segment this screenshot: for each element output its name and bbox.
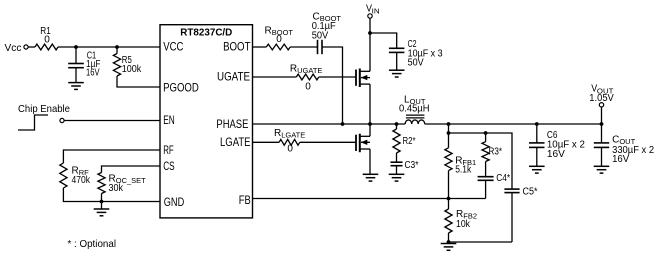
pin BOOT [223,39,251,53]
svg-text:R2*: R2* [403,136,416,147]
node Vcc input terminal [5,42,29,54]
junction node VOUT-RFB1 [447,122,451,126]
wire RLGATE to Q2 gate [300,141,356,143]
pin PGOOD [163,81,199,95]
wire RUGATE to Q1 gate [319,76,356,78]
svg-text:VCC: VCC [163,40,183,54]
ground RF/CS rail [94,202,110,216]
svg-text:FB: FB [239,193,251,207]
capacitor C3* [391,153,419,174]
svg-text:0: 0 [305,82,311,93]
wire phase node segment [343,123,406,125]
svg-text:0.45µH: 0.45µH [399,104,430,115]
capacitor C6 [529,124,585,166]
svg-text:RUGATE: RUGATE [290,64,323,76]
transistor Q1 high-side NMOS [356,69,370,88]
resistor RLGATE [274,128,305,154]
wire feedback sub-rail [449,133,513,189]
svg-text:UGATE: UGATE [217,70,250,84]
pin FB [239,193,251,207]
inductor LOUT [399,94,430,124]
capacitor C2 [389,39,443,70]
capacitor C1 [68,47,100,83]
node VIN input [366,4,380,19]
wire RBOOT to CBOOT [290,46,317,48]
svg-text:EN: EN [163,113,175,127]
resistor RBOOT [265,26,294,50]
svg-text:10k: 10k [456,219,471,230]
svg-text:GND: GND [164,195,185,209]
resistor R2* [393,124,416,153]
svg-text:30k: 30k [109,183,124,194]
wire Vcc terminal to R1 [28,46,35,48]
wire C2 branch [370,33,397,48]
pin RF [163,143,174,157]
pin CS [163,159,175,173]
wire ROC_SET bottom [101,194,103,202]
wire R5 to PGOOD pin [117,76,160,87]
ground C2 [389,70,405,77]
resistor RFB2 [445,199,477,243]
resistor R3* [482,133,502,162]
ground C6 [529,166,545,173]
svg-text:50V: 50V [408,58,424,69]
svg-text:* : Optional: * : Optional [68,238,117,250]
junction node VOUT-C6 [535,122,539,126]
ground C3* [389,174,405,181]
wire VIN down [369,18,371,33]
pin UGATE [217,70,250,84]
op-amp U1 RT8237C/D controller box [160,25,253,218]
resistor RRF [60,163,91,188]
svg-text:50V: 50V [312,30,329,41]
svg-text:16V: 16V [612,154,629,165]
junction node C1 tap [74,45,78,49]
junction node phase-CBOOT [341,122,345,126]
resistor R5 [113,47,142,76]
svg-text:RLGATE: RLGATE [274,128,305,140]
node VOUT output terminal [589,83,614,107]
node Chip Enable input [18,103,70,130]
svg-text:0: 0 [44,35,50,46]
wire inductor to output node [425,123,602,125]
junction node ground rail [100,200,104,204]
ground COUT [594,166,610,173]
svg-text:Chip Enable: Chip Enable [18,103,70,115]
capacitor C4* [478,162,511,199]
svg-text:5.1k: 5.1k [455,165,472,176]
ground C1 [68,83,84,90]
capacitor CBOOT [312,12,342,55]
wire VIN junction to Q1 drain [369,33,371,71]
svg-text:16V: 16V [547,149,565,160]
junction node R5 tap [115,45,119,49]
svg-text:CS: CS [163,159,175,173]
junction node phase-Q1 [368,122,372,126]
svg-text:0: 0 [287,143,293,154]
svg-text:IN: IN [372,7,380,16]
wire EN [64,120,160,122]
ground RFB2 [441,242,457,250]
wire Q2 drain to phase [369,124,371,136]
junction node VOUT terminal tap [600,122,604,126]
svg-text:LGATE: LGATE [220,135,251,149]
svg-text:0: 0 [276,34,282,45]
wire R1 to VCC pin [58,46,160,48]
wire RFB1 branch top [448,124,450,148]
resistor RFB1 [445,148,476,199]
pin VCC [163,40,183,54]
wire RF pin to RRF [63,150,160,163]
junction node RFB2 ground [447,240,451,244]
svg-text:RF: RF [163,143,174,157]
svg-text:100k: 100k [122,64,142,75]
wire UGATE pin to RUGATE [253,76,297,78]
svg-text:C4*: C4* [496,173,510,184]
junction node sub-rail at RFB1 [447,131,451,135]
pin EN [163,113,175,127]
wire PHASE pin to phase node [253,123,343,125]
junction node phase-R2 snubber [395,122,399,126]
text optional note [68,238,117,250]
resistor R1 [35,26,58,50]
resistor RUGATE [290,64,323,93]
pin GND [164,195,185,209]
svg-text:R3*: R3* [489,147,503,158]
svg-text:C3*: C3* [405,160,419,171]
wire RRF bottom to ground rail [63,188,160,202]
wire LGATE pin to RLGATE [253,141,280,143]
ground Q2 source [363,174,379,181]
svg-text:PGOOD: PGOOD [163,81,199,95]
wire FB pin to divider [253,198,486,200]
transistor Q2 low-side NMOS [356,134,370,153]
wire VOUT terminal down [601,107,603,124]
wire Q1 source to phase [369,84,371,124]
svg-text:Vcc: Vcc [5,42,22,54]
wire CS pin to ROC_SET [102,166,161,173]
wire Q2 source to ground [369,149,371,174]
svg-text:RT8237C/D: RT8237C/D [180,28,232,39]
wire BOOT pin to RBOOT [253,46,267,48]
svg-text:470k: 470k [72,175,91,186]
wire C5 bottom to ground rail [449,241,513,243]
svg-text:BOOT: BOOT [223,39,251,53]
junction node VIN-C2 [368,31,372,35]
capacitor C5* [504,186,537,242]
pin LGATE [220,135,251,149]
junction node FB divider [447,197,451,201]
capacitor COUT [594,124,655,166]
pin PHASE [216,117,248,131]
resistor ROC_SET [98,173,146,195]
svg-text:PHASE: PHASE [216,117,248,131]
svg-text:16V: 16V [86,67,100,78]
svg-text:C5*: C5* [523,186,538,197]
wire CBOOT to phase node [322,47,343,124]
junction node sub-rail at R3 [484,131,488,135]
